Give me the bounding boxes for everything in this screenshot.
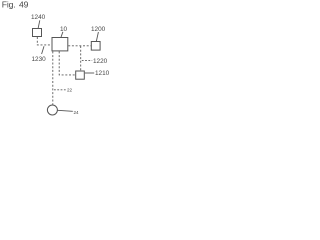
leader 1220 dashed: [82, 60, 92, 62]
svg-text:1240: 1240: [31, 14, 46, 21]
dashed wire 10 to 1200: [68, 45, 91, 47]
leader to box 10: [61, 32, 63, 38]
svg-text:1210: 1210: [95, 70, 109, 77]
box 1210: [76, 71, 85, 79]
leader 1230: [42, 46, 44, 54]
svg-text:1230: 1230: [32, 56, 47, 63]
svg-text:1200: 1200: [91, 26, 106, 33]
dashed wire T-junction down to 1210: [80, 46, 82, 71]
leader 22 dashed: [54, 89, 66, 91]
svg-text:1220: 1220: [93, 58, 108, 65]
svg-text:Fig. 49: Fig. 49: [2, 0, 29, 10]
box 1200: [91, 42, 100, 51]
box 1240: [33, 29, 42, 37]
svg-text:10: 10: [60, 26, 68, 33]
leader to box 1240: [38, 20, 40, 31]
leader 1210: [85, 72, 94, 74]
dashed wire 10 bottom to 1210 left: [59, 51, 75, 75]
circle node 24: [47, 105, 57, 115]
dashed wire 1240 to 10: [37, 37, 52, 45]
leader 24: [58, 110, 73, 111]
leader to box 1200: [96, 32, 98, 42]
dashed wire 10 bottom to circle 24: [52, 51, 54, 104]
svg-text:22: 22: [67, 87, 73, 92]
svg-text:24: 24: [74, 110, 80, 115]
box 10: [52, 38, 68, 51]
